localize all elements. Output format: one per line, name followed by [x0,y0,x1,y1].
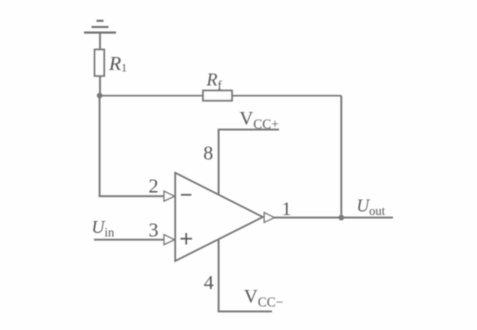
svg-text:VCC+: VCC+ [240,109,279,132]
output arrow pin 1 [264,213,274,223]
output junction dot [339,215,345,221]
output wire [274,217,393,219]
pin 2 arrow [164,191,174,201]
op-amp minus input sign [181,194,191,196]
svg-text:Uout: Uout [357,196,386,219]
svg-text:3: 3 [149,219,159,241]
op-amp plus input sign [181,233,193,245]
pin 8 wire [218,130,220,195]
svg-text:Uin: Uin [92,217,115,240]
svg-text:R1: R1 [108,53,127,75]
VCC- supply wire [218,310,272,312]
wire node A to Rf [100,95,203,97]
svg-text:2: 2 [149,175,159,197]
op-amp U1 triangle [175,173,263,261]
svg-text:4: 4 [204,272,214,294]
wire R1 to node A [99,76,101,96]
VCC+ supply wire [218,129,279,131]
pin 4 wire [218,240,220,312]
node A junction dot [97,93,103,99]
resistor R1 [95,50,105,77]
svg-text:Rf: Rf [206,70,223,93]
wire node A down to pin 2 [100,96,164,197]
wire Uin to pin 3 [94,239,164,241]
ground [84,21,116,33]
wire Rf to corner [232,95,341,97]
resistor Rf [203,91,232,101]
pin 3 arrow [164,235,174,245]
wire feedback vertical [340,96,342,218]
wire ground to R1 [99,34,101,50]
svg-text:VCC−: VCC− [244,287,283,310]
svg-text:8: 8 [203,143,213,165]
